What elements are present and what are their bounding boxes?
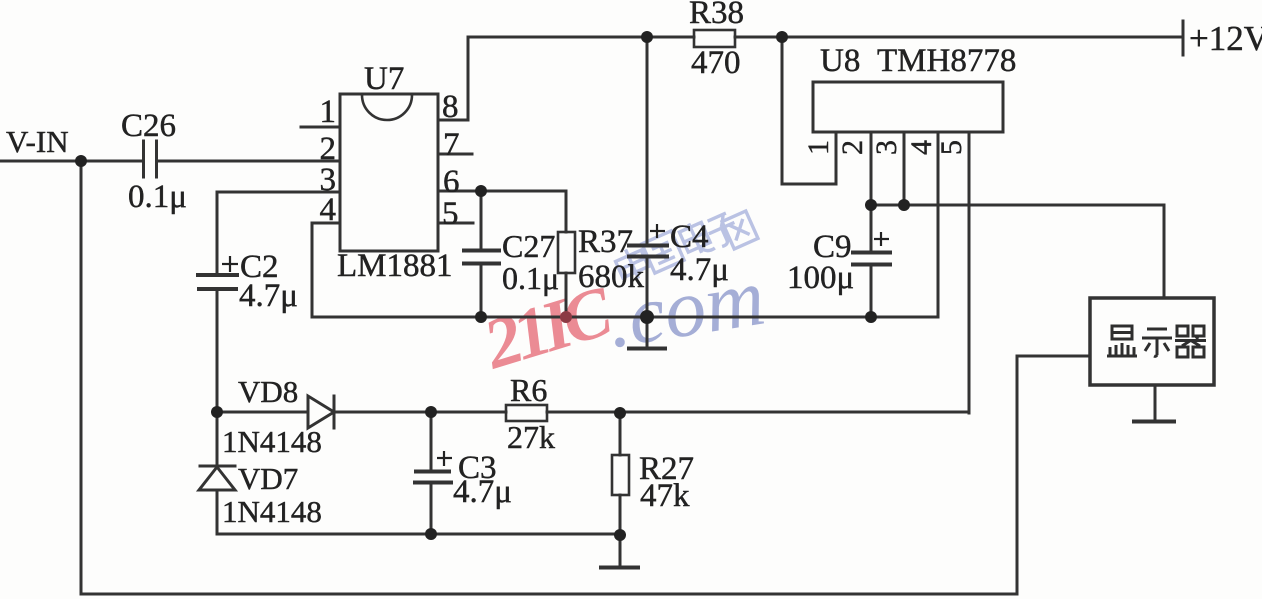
wire bottom rail — [81, 593, 1017, 596]
svg-text:1: 1 — [802, 140, 835, 155]
svg-text:4.7μ: 4.7μ — [453, 474, 512, 510]
svg-text:0.1μ: 0.1μ — [502, 260, 559, 296]
watermark chinese 中国电子网 — [613, 211, 758, 284]
junction V-IN node — [75, 155, 87, 167]
svg-text:8: 8 — [442, 89, 459, 125]
svg-text:47k: 47k — [640, 478, 690, 514]
wire pin7 stub — [438, 153, 472, 156]
ground under C4 — [629, 347, 665, 351]
junction +12V rail / C4 — [641, 31, 653, 43]
plus C2 — [222, 263, 238, 265]
wire pin3 U7 to C2 — [217, 191, 340, 194]
svg-text:470: 470 — [691, 45, 741, 81]
wire junction 782 down to U8 pin1 — [781, 37, 784, 184]
svg-text:VD7: VD7 — [238, 461, 298, 496]
junction ground rail / C27 — [475, 311, 487, 323]
svg-text:5: 5 — [935, 140, 968, 155]
svg-text:C27: C27 — [502, 228, 555, 264]
svg-text:3: 3 — [870, 140, 903, 155]
resistor R37 — [565, 191, 568, 232]
svg-text:4.7μ: 4.7μ — [670, 252, 729, 288]
U7 notch — [362, 95, 412, 120]
junction U8 pin3 node — [898, 199, 910, 211]
capacitor C3 — [430, 412, 433, 471]
resistor R6 — [506, 405, 547, 421]
svg-text:R6: R6 — [510, 372, 547, 408]
wire pin4 U7 down to rail — [312, 222, 340, 225]
svg-text:U7: U7 — [364, 61, 404, 97]
char 示 — [1142, 329, 1172, 356]
U8 pin4 wire to rail — [937, 132, 940, 317]
svg-text:4.7μ: 4.7μ — [239, 278, 298, 314]
svg-text:1N4148: 1N4148 — [222, 494, 322, 529]
IC U8 box — [813, 82, 1003, 132]
U8 pin5 wire down to R6 row — [968, 132, 971, 413]
capacitor C2 plates — [198, 273, 237, 277]
junction R6 / R27 — [614, 407, 626, 419]
diode VD7 — [216, 412, 219, 466]
svg-text:U8: U8 — [820, 43, 860, 79]
IC U7 box — [340, 94, 438, 251]
wire pin6 to C27/R37 — [438, 190, 566, 193]
label display box 显示器 (hand drawn CJK) — [1107, 326, 1206, 357]
wire pin5 stub — [438, 222, 473, 225]
resistor R27 — [619, 412, 622, 455]
svg-text:+12V: +12V — [1189, 19, 1262, 58]
junction VD8 anode / C2 / VD7 — [211, 406, 223, 418]
plus C4 — [650, 230, 665, 232]
junction ground rail / C9 — [865, 311, 877, 323]
ground under R27 — [601, 566, 638, 570]
svg-text:C4: C4 — [670, 219, 709, 255]
svg-text:R37: R37 — [578, 224, 633, 260]
U8 pin2 wire + C9 — [870, 132, 873, 252]
wire V-IN down left side — [80, 161, 83, 594]
wire V-IN input — [0, 160, 143, 163]
diode row wire — [217, 411, 308, 414]
junction ground rail / R37 — [560, 311, 572, 323]
junction bottom row / R27 — [614, 529, 626, 541]
wire C2 down to diode row — [216, 289, 219, 412]
svg-text:5: 5 — [442, 196, 459, 232]
wire pin1 stub U7 — [301, 126, 340, 129]
watermark 21IC.com and chinese chars — [475, 211, 771, 384]
svg-text:C26: C26 — [121, 108, 176, 144]
wire pins2/3 to display — [871, 204, 1164, 207]
svg-text:7: 7 — [443, 127, 460, 163]
junction +12V rail / U8 pin1 — [776, 31, 788, 43]
junction U7 pin6 / C27 — [475, 185, 487, 197]
char 显 — [1107, 326, 1137, 356]
capacitor C27 — [480, 191, 483, 250]
bottom sub row — [217, 533, 620, 536]
svg-text:R38: R38 — [689, 0, 744, 31]
junction diode row / C3 — [425, 406, 437, 418]
svg-text:6: 6 — [443, 164, 460, 200]
wire pin8 U7 up to +12V rail — [438, 119, 468, 122]
+12V terminal bar — [1182, 21, 1185, 55]
plus polarity marks — [222, 224, 889, 466]
display box — [1090, 298, 1214, 385]
wire top rail +12V — [468, 36, 694, 39]
svg-text:680k: 680k — [578, 259, 645, 295]
svg-text:LM1881: LM1881 — [337, 248, 453, 284]
junction U8 pin2 node — [865, 199, 877, 211]
svg-text:4: 4 — [320, 192, 337, 228]
resistor R38 — [694, 30, 735, 47]
diode VD8 — [308, 396, 334, 428]
wire ground rail mid — [312, 316, 938, 319]
junction ground rail / C4 — [640, 310, 654, 324]
U8 pin3 wire — [903, 132, 906, 205]
char 器 — [1175, 326, 1206, 357]
svg-text:VD8: VD8 — [238, 374, 298, 409]
svg-text:V-IN: V-IN — [6, 124, 69, 159]
junction bottom row / C3 — [425, 528, 437, 540]
svg-text:0.1μ: 0.1μ — [128, 179, 187, 215]
ground under display — [1154, 385, 1157, 421]
display box wire left — [1017, 355, 1090, 358]
svg-text:100μ: 100μ — [787, 260, 854, 296]
plus C3 — [437, 457, 452, 459]
capacitor C26 plates — [142, 141, 145, 177]
plus C9 — [874, 238, 889, 240]
capacitor C4 + wire from top rail — [646, 37, 649, 245]
svg-text:1: 1 — [320, 94, 337, 130]
svg-text:2: 2 — [836, 140, 869, 155]
svg-text:27k: 27k — [507, 419, 555, 455]
svg-text:1N4148: 1N4148 — [222, 424, 322, 459]
svg-text:4: 4 — [905, 140, 938, 155]
svg-text:TMH8778: TMH8778 — [877, 43, 1016, 79]
